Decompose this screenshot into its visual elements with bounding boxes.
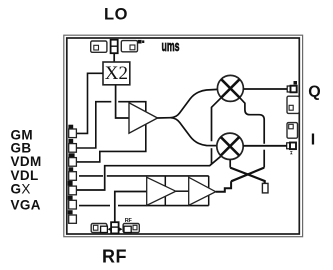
black square 3: [68, 153, 74, 157]
RF right pad white box: [124, 226, 131, 232]
pad P1 (GM): [69, 129, 77, 138]
RF series arrow right: [119, 227, 123, 231]
pin LO (feed-through): [111, 40, 118, 54]
op-amp LO buffer (triangle): [129, 103, 158, 133]
svg-text:Q: Q: [308, 84, 320, 101]
chip border outer: [64, 35, 303, 237]
pad P7 (spare): [69, 215, 77, 223]
wire GB up-right (hop gap at X2 output vertical): [76, 102, 111, 148]
wire X2 output to LO amp: [116, 85, 129, 118]
amplifier A1 (RF amp stage 1 triangle): [147, 177, 176, 205]
pad right A: [287, 96, 299, 113]
doubler X2 box: [103, 62, 130, 85]
RF pin (feed-through): [111, 222, 119, 233]
pad P6 (VGA): [69, 200, 77, 209]
chip border inner: [67, 38, 299, 234]
RF amp right edge: [208, 176, 210, 206]
wire GX long run to mixer area: [76, 156, 221, 190]
pad P4 (VDL): [69, 172, 77, 181]
wire Q output: [243, 88, 287, 90]
RF right pad inner square: [133, 225, 137, 230]
wire crossing diagonal B (amp out to upper path): [231, 168, 264, 182]
RF right pad: [123, 224, 139, 233]
pad LO right: [121, 41, 137, 52]
pad P5 (GX): [69, 186, 77, 195]
svg-text:VGA: VGA: [11, 198, 41, 213]
RF left pad inner square: [93, 225, 98, 230]
wire riser to top mixer (hop over I line): [263, 150, 265, 168]
wire RF amp output staircase: [216, 181, 231, 191]
black square 4: [68, 167, 73, 171]
wire LO pin to X2: [113, 53, 115, 62]
wire VGA / bottom edge of RF amp (hop gap at RF vertical): [79, 205, 110, 207]
wire RF input: [115, 192, 147, 223]
svg-text:X2: X2: [105, 63, 128, 84]
svg-text:RF: RF: [102, 247, 127, 267]
tiny mark above Q pad: [294, 81, 298, 85]
svg-text:GX: GX: [11, 182, 31, 197]
svg-text:ums: ums: [162, 38, 180, 55]
RF bottom pad group: left pad: [91, 224, 107, 233]
pad right B: [287, 123, 298, 139]
mixer M2 (bottom): [217, 133, 243, 159]
mixer M1 (top): [217, 75, 243, 101]
black square 5: [68, 181, 73, 186]
wire mixer M2 bottom drop: [229, 160, 231, 168]
pad LO right inner square: [130, 45, 135, 50]
RF series arrow left: [108, 227, 112, 231]
RF amp divider: [164, 176, 166, 206]
pad LO left inner square: [94, 45, 99, 50]
wire I output: [243, 145, 287, 147]
left pad column: black square 1: [68, 125, 73, 129]
resistor/termination block: [262, 183, 268, 193]
black square 7: [68, 210, 73, 214]
black square 2: [68, 139, 73, 143]
amplifier A2 (RF amp stage 2 triangle): [189, 177, 216, 205]
wire top-mixer lower-left drop (with hop over LO line): [212, 98, 222, 142]
pad P2 (GB): [69, 144, 77, 153]
black square 6: [68, 196, 73, 200]
wire stage link: [176, 190, 189, 192]
pad LO left: [91, 41, 107, 52]
svg-text:VDM: VDM: [11, 154, 42, 169]
tiny mark right of LO pad: [138, 40, 142, 44]
pad right A inner square: [289, 105, 293, 110]
wire GM to X2 left: [76, 73, 103, 133]
pad I output structure: [287, 143, 290, 149]
pad right B inner square: [289, 124, 294, 129]
svg-text:RF: RF: [125, 218, 133, 224]
wire crossing diagonal A (to termination): [230, 168, 265, 184]
RF left pad white box: [101, 226, 108, 232]
pad Q output structure: [287, 86, 290, 92]
wire LO fork to mixers: [158, 89, 218, 118]
svg-text:LO: LO: [104, 6, 128, 24]
tiny mark below I pad: [290, 151, 293, 154]
wire VDL top edge of RF amp (hop gap at GX vertical): [79, 175, 103, 177]
svg-text:I: I: [311, 132, 315, 149]
pad P3 (VDM): [69, 158, 77, 167]
